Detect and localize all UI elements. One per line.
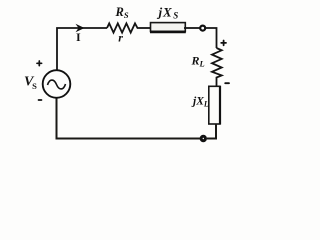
wire node to top-right corner, down to R_L	[205, 28, 216, 48]
reactance box jX_L	[209, 86, 220, 125]
node terminal (bottom)	[201, 136, 205, 140]
label + (source)	[37, 61, 42, 66]
resistor R_L (vertical)	[212, 48, 222, 86]
current arrow I	[76, 24, 85, 32]
label - (between R_L and jX_L)	[225, 82, 229, 84]
AC source V_S circle	[43, 70, 71, 98]
label + (load top)	[221, 41, 226, 46]
node terminal (top, open circle)	[200, 26, 205, 31]
resistor R_S	[107, 23, 140, 32]
svg-text:r: r	[118, 31, 123, 45]
svg-text:I: I	[76, 30, 81, 44]
wire bottom run back to source	[57, 98, 201, 139]
reactance box jX_S	[150, 23, 186, 32]
wire top-left segment with corner	[57, 28, 107, 71]
wire between R_S and jX_S box	[140, 27, 151, 29]
AC source sine wave	[48, 80, 66, 89]
wire box to node	[184, 27, 200, 29]
wire box bottom to bottom-right corner	[207, 124, 216, 139]
label - (source)	[39, 99, 42, 101]
